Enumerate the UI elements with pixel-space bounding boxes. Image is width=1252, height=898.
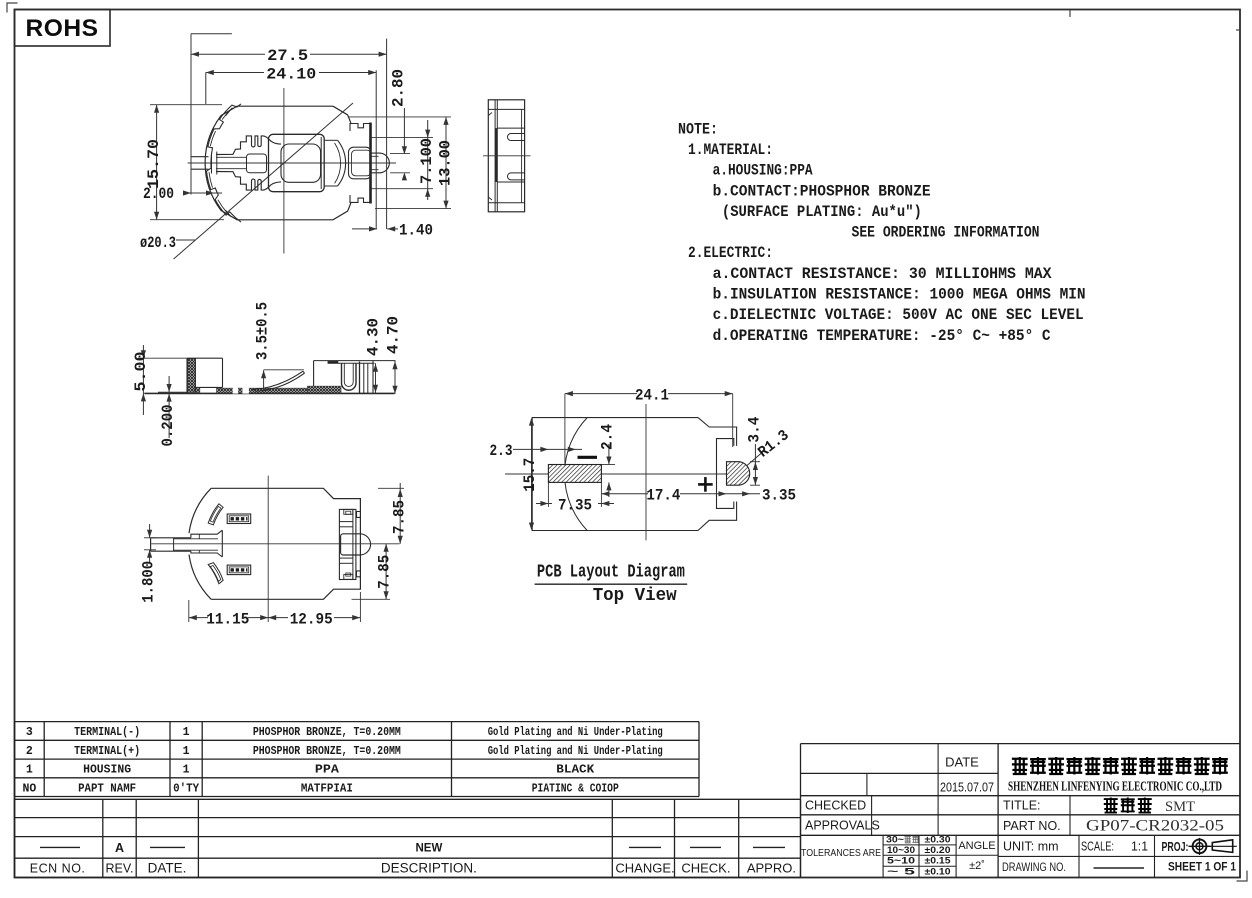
svg-text:24.10: 24.10 — [266, 65, 316, 83]
bottom view: upper terminal window — [227, 514, 251, 524]
svg-text:1: 1 — [183, 726, 190, 739]
svg-text:11.15: 11.15 — [206, 610, 249, 628]
dimension 11.15 — [188, 600, 190, 622]
svg-text:CHANGE.: CHANGE. — [615, 860, 674, 875]
svg-text:1.MATERIAL:: 1.MATERIAL: — [688, 141, 773, 159]
svg-text:±0.10: ±0.10 — [925, 866, 951, 877]
svg-text:c.DIELECTNIC VOLTAGE: 500V AC: c.DIELECTNIC VOLTAGE: 500V AC ONE SEC LE… — [713, 306, 1084, 324]
svg-text:0'TY: 0'TY — [173, 782, 199, 795]
svg-text:APPROVALS: APPROVALS — [805, 819, 880, 833]
svg-text:NOTE:: NOTE: — [678, 120, 718, 138]
pcb layout: plus symbol — [698, 483, 713, 486]
svg-text:Gold Plating and Ni Under-Plat: Gold Plating and Ni Under-Plating — [488, 726, 663, 739]
top view: right ledges — [325, 139, 338, 141]
section view: U-shaped contact — [342, 363, 357, 390]
dimension 24.1 — [565, 393, 637, 395]
bottom view: lower terminal window — [227, 565, 251, 575]
title block: unit scale proj row — [1078, 835, 1080, 877]
svg-text:PHOSPHOR BRONZE, T=0.20MM: PHOSPHOR BRONZE, T=0.20MM — [253, 745, 401, 758]
svg-text:2.4: 2.4 — [599, 424, 617, 450]
svg-text:ROHS: ROHS — [26, 15, 99, 42]
section view: right vertical plates — [359, 362, 361, 394]
svg-text:HOUSING: HOUSING — [83, 764, 131, 777]
title block: projection symbol target circle — [1193, 839, 1207, 853]
svg-text:27.5: 27.5 — [267, 47, 308, 65]
pcb layout: minus symbol — [578, 456, 598, 459]
section view: right block outline — [313, 361, 315, 387]
dimension 15.70 (rotated) — [156, 105, 158, 220]
svg-text:UNIT: mm: UNIT: mm — [1003, 840, 1059, 854]
svg-text:3.35: 3.35 — [762, 487, 796, 505]
revision table: row A entries — [40, 846, 80, 848]
svg-text:5.00: 5.00 — [132, 352, 150, 392]
side view: inner vertical plate lines — [494, 100, 496, 212]
corner mark top-left — [7, 3, 18, 13]
svg-text:a.CONTACT RESISTANCE: 30 MILLI: a.CONTACT RESISTANCE: 30 MILLIOHMS MAX — [713, 265, 1052, 283]
dimension 24.10 — [205, 73, 207, 105]
svg-text:APPRO.: APPRO. — [747, 860, 796, 875]
top view: positive contact finger with round cap — [371, 153, 390, 173]
svg-text:TERMINAL(+): TERMINAL(+) — [74, 745, 140, 758]
section view: contact plate edge bar — [328, 361, 339, 363]
bottom view: left arc lower — [189, 555, 211, 600]
pcb layout: right notch bracket — [717, 439, 734, 509]
svg-text:d.OPERATING TEMPERATURE: -25°: d.OPERATING TEMPERATURE: -25° C~ +85° C — [713, 327, 1051, 345]
svg-text:1: 1 — [26, 764, 33, 777]
top view: crown contact lower outline — [216, 172, 281, 191]
svg-text:7.100: 7.100 — [418, 138, 436, 184]
bottom view: pin flare cone — [191, 530, 222, 538]
top view: center contact neck inner lines — [216, 157, 246, 168]
section view: bottom hatched strip — [217, 388, 339, 393]
corner mark bottom-right — [1237, 871, 1248, 882]
bottom view: strip rungs — [339, 521, 353, 523]
svg-text:b.INSULATION RESISTANCE: 1000: b.INSULATION RESISTANCE: 1000 MEGA OHMS … — [713, 286, 1086, 304]
svg-text:2: 2 — [26, 745, 33, 758]
bottom view: lower-left curved slot — [208, 563, 223, 584]
svg-text:PAPT NAMF: PAPT NAMF — [78, 782, 136, 795]
svg-text:REV.: REV. — [105, 861, 133, 875]
pcb layout: vertical centerline — [645, 404, 647, 540]
dimension 7.100 (rotated) — [427, 120, 429, 200]
dimension 1.40 — [352, 228, 377, 230]
svg-text:(SURFACE PLATING: Au*u″): (SURFACE PLATING: Au*u″) — [722, 203, 922, 221]
dimension 17.4 — [601, 493, 648, 495]
svg-text:3: 3 — [26, 726, 33, 739]
section view: left block outline — [186, 358, 188, 393]
dimension 27.5 — [191, 33, 232, 35]
ROHS logo box — [15, 10, 111, 47]
svg-text:A: A — [115, 841, 124, 855]
svg-text:±0.15: ±0.15 — [925, 855, 952, 866]
pcb layout: positive pad (hatched) — [727, 462, 750, 486]
svg-text:GP07-CR2032-05: GP07-CR2032-05 — [1086, 818, 1224, 835]
title block frame — [801, 743, 1240, 745]
svg-text:NO: NO — [22, 782, 36, 795]
svg-text:ø20.3: ø20.3 — [140, 234, 176, 252]
top view: vertical centerline — [283, 88, 285, 254]
title block: company name CJK — [1012, 757, 1028, 775]
dimension 4.30 (rotated) — [375, 363, 377, 393]
svg-text:b.CONTACT:PHOSPHOR BRONZE: b.CONTACT:PHOSPHOR BRONZE — [713, 182, 931, 200]
svg-text:TERMINAL(-): TERMINAL(-) — [74, 726, 140, 739]
svg-text:2.80: 2.80 — [390, 69, 408, 107]
top view: positive tab thick edge — [369, 123, 372, 204]
svg-text:4.30: 4.30 — [365, 318, 383, 356]
svg-text:24.1: 24.1 — [635, 387, 669, 405]
top view: horizontal centerline — [188, 162, 396, 164]
top view: crown contact upper outline — [216, 136, 281, 155]
svg-text:SCALE:: SCALE: — [1081, 840, 1114, 854]
pcb layout: battery circle arc — [565, 418, 588, 531]
side view: lower slot — [508, 173, 525, 180]
top view: right opening arcs — [338, 140, 346, 186]
dimension R1.3 leader — [747, 450, 765, 466]
svg-text:PART NO.: PART NO. — [1003, 819, 1061, 833]
bottom view: negative pin — [151, 537, 191, 539]
svg-text:17.4: 17.4 — [646, 487, 680, 505]
svg-text:BLACK: BLACK — [556, 764, 594, 777]
svg-text:DRAWING NO.: DRAWING NO. — [1002, 862, 1066, 874]
bottom view: pin inner lines — [174, 538, 218, 540]
top view: inner wall arc with castellation notches — [207, 104, 242, 222]
svg-text:15.7: 15.7 — [521, 458, 539, 492]
svg-text:15.70: 15.70 — [145, 139, 163, 189]
dimension 13.00 (rotated) — [445, 117, 447, 209]
svg-text:~ 5: ~ 5 — [887, 866, 916, 877]
svg-text:2.00: 2.00 — [143, 185, 174, 203]
svg-text:ANGLE: ANGLE — [958, 840, 995, 852]
svg-text:Gold Plating and Ni Under-Plat: Gold Plating and Ni Under-Plating — [488, 745, 663, 758]
svg-text:PHOSPHOR BRONZE, T=0.20MM: PHOSPHOR BRONZE, T=0.20MM — [253, 726, 401, 739]
title block: date cells — [937, 744, 939, 836]
top view: inner notch detail arcs — [218, 200, 227, 213]
side view: left edge spring ticks — [488, 113, 492, 201]
dimension 4.70 (rotated) — [394, 361, 396, 394]
svg-text:TITLE:: TITLE: — [1003, 799, 1041, 813]
top view: chamfer inner parallels — [226, 109, 232, 116]
svg-text:DATE.: DATE. — [148, 860, 187, 875]
revision table — [15, 798, 801, 800]
bottom view: vertical centerline — [267, 476, 269, 622]
bottom view: body edge notches — [357, 512, 361, 518]
svg-text:CHECK.: CHECK. — [681, 860, 730, 875]
pcb layout: negative pad (hatched) — [548, 465, 601, 483]
section view: right hatched strip — [308, 386, 342, 393]
svg-text:7.85: 7.85 — [376, 555, 394, 589]
dimension 7.35 — [547, 482, 549, 507]
dimension 15.7 (rotated) — [529, 418, 534, 426]
bottom view: upper-left curved slot — [208, 504, 223, 525]
svg-text:±2˚: ±2˚ — [969, 860, 985, 872]
dimension 7.85 upper (rotated) — [399, 483, 401, 544]
svg-text:ECN NO.: ECN NO. — [30, 861, 86, 875]
svg-text:3.4: 3.4 — [746, 417, 764, 443]
dimension 3.35 — [727, 493, 761, 495]
bottom view: body outline — [211, 488, 360, 599]
registration tick top — [1069, 10, 1071, 17]
dimension 7.85 lower (rotated) — [385, 544, 387, 600]
svg-text:SEE ORDERING INFORMATION: SEE ORDERING INFORMATION — [852, 224, 1040, 242]
dimension 2.4 (rotated) — [608, 444, 610, 465]
side view: horizontal separations — [488, 108, 524, 110]
bottom view: left arc upper — [189, 488, 211, 533]
svg-text:13.00: 13.00 — [437, 140, 455, 186]
svg-text:PROJ:: PROJ: — [1162, 840, 1189, 854]
top view: positive tab bracket top — [350, 124, 370, 132]
svg-text:SMT: SMT — [1165, 799, 1195, 815]
section view: spring contact curve — [252, 371, 303, 389]
svg-text:MATFPIAI: MATFPIAI — [301, 782, 353, 795]
top view: negative pin (left) — [191, 156, 209, 158]
section view: left hatched wall — [188, 359, 196, 393]
svg-text:CHECKED: CHECKED — [805, 799, 866, 813]
top view: main housing block — [269, 134, 325, 191]
top view: body outline — [205, 106, 351, 220]
svg-text:DATE: DATE — [945, 755, 979, 770]
svg-text:7.35: 7.35 — [558, 496, 592, 514]
svg-text:±0.20: ±0.20 — [925, 845, 951, 856]
side view: outer rectangle — [488, 100, 524, 212]
svg-text:SHEET 1 OF 1: SHEET 1 OF 1 — [1168, 862, 1237, 874]
dimension 1.800 (rotated) — [149, 524, 151, 538]
top view: crown contact window — [247, 154, 267, 173]
pcb layout: outline — [532, 418, 736, 531]
pcb layout: horizontal centerline — [505, 473, 750, 475]
dimension 3.5 +/-0.5 (rotated) — [263, 370, 265, 391]
bottom view: positive contact D-bump — [341, 534, 371, 555]
svg-text:PCB Layout Diagram: PCB Layout Diagram — [537, 563, 685, 583]
svg-text:0.200: 0.200 — [159, 405, 177, 447]
top view: positive tab bracket bottom — [350, 195, 370, 202]
registration tick right — [1236, 29, 1240, 31]
title block: projection symbol cone — [1206, 845, 1237, 847]
svg-text:3.5±0.5: 3.5±0.5 — [254, 302, 272, 360]
dimension 12.95 — [359, 592, 361, 622]
section view: base plate — [144, 392, 394, 394]
svg-text:2015.07.07: 2015.07.07 — [940, 780, 994, 795]
svg-text:NEW: NEW — [415, 842, 442, 854]
svg-text:DESCRIPTION.: DESCRIPTION. — [381, 860, 477, 875]
svg-text:1.40: 1.40 — [399, 222, 433, 240]
svg-text:a.HOUSING:PPA: a.HOUSING:PPA — [713, 162, 813, 180]
svg-text:TOLERANCES ARE: TOLERANCES ARE — [801, 848, 881, 859]
top view: positive tongue — [349, 147, 372, 179]
dimension 5.00 (rotated) — [142, 345, 144, 415]
svg-text:1: 1 — [183, 745, 190, 758]
svg-text:Top View: Top View — [593, 586, 677, 606]
svg-text:7.85: 7.85 — [391, 500, 409, 534]
bottom view: positive terminal strip — [339, 509, 356, 579]
dimension 0.200 (rotated) — [168, 376, 170, 438]
svg-text:12.95: 12.95 — [290, 610, 333, 628]
svg-text:SHENZHEN LINFENYING ELECTRONIC: SHENZHEN LINFENYING ELECTRONIC CO.,LTD — [1008, 779, 1222, 794]
parts list table — [15, 721, 700, 723]
side view: upper slot — [508, 134, 525, 141]
bottom view: strip end boxes — [344, 509, 353, 514]
side view: inner right vertical — [521, 109, 523, 202]
svg-text:PIATINC & COIOP: PIATINC & COIOP — [532, 782, 619, 795]
top view: diameter leader diagonal line — [174, 103, 353, 259]
svg-text:1.800: 1.800 — [140, 561, 158, 603]
title block: tolerances area — [882, 835, 884, 877]
svg-text:2.3: 2.3 — [490, 442, 513, 460]
svg-text:2.ELECTRIC:: 2.ELECTRIC: — [688, 244, 773, 262]
svg-text:PPA: PPA — [315, 764, 339, 777]
side view: centerline — [483, 155, 531, 157]
bottom view: horizontal centerline — [151, 543, 399, 545]
svg-text:5~10: 5~10 — [887, 855, 915, 866]
svg-text:4.70: 4.70 — [385, 316, 403, 354]
svg-text:1: 1 — [183, 764, 190, 777]
svg-text:1:1: 1:1 — [1131, 840, 1148, 854]
top view: neck junction verticals — [216, 152, 218, 175]
svg-text:10~30: 10~30 — [887, 845, 915, 856]
